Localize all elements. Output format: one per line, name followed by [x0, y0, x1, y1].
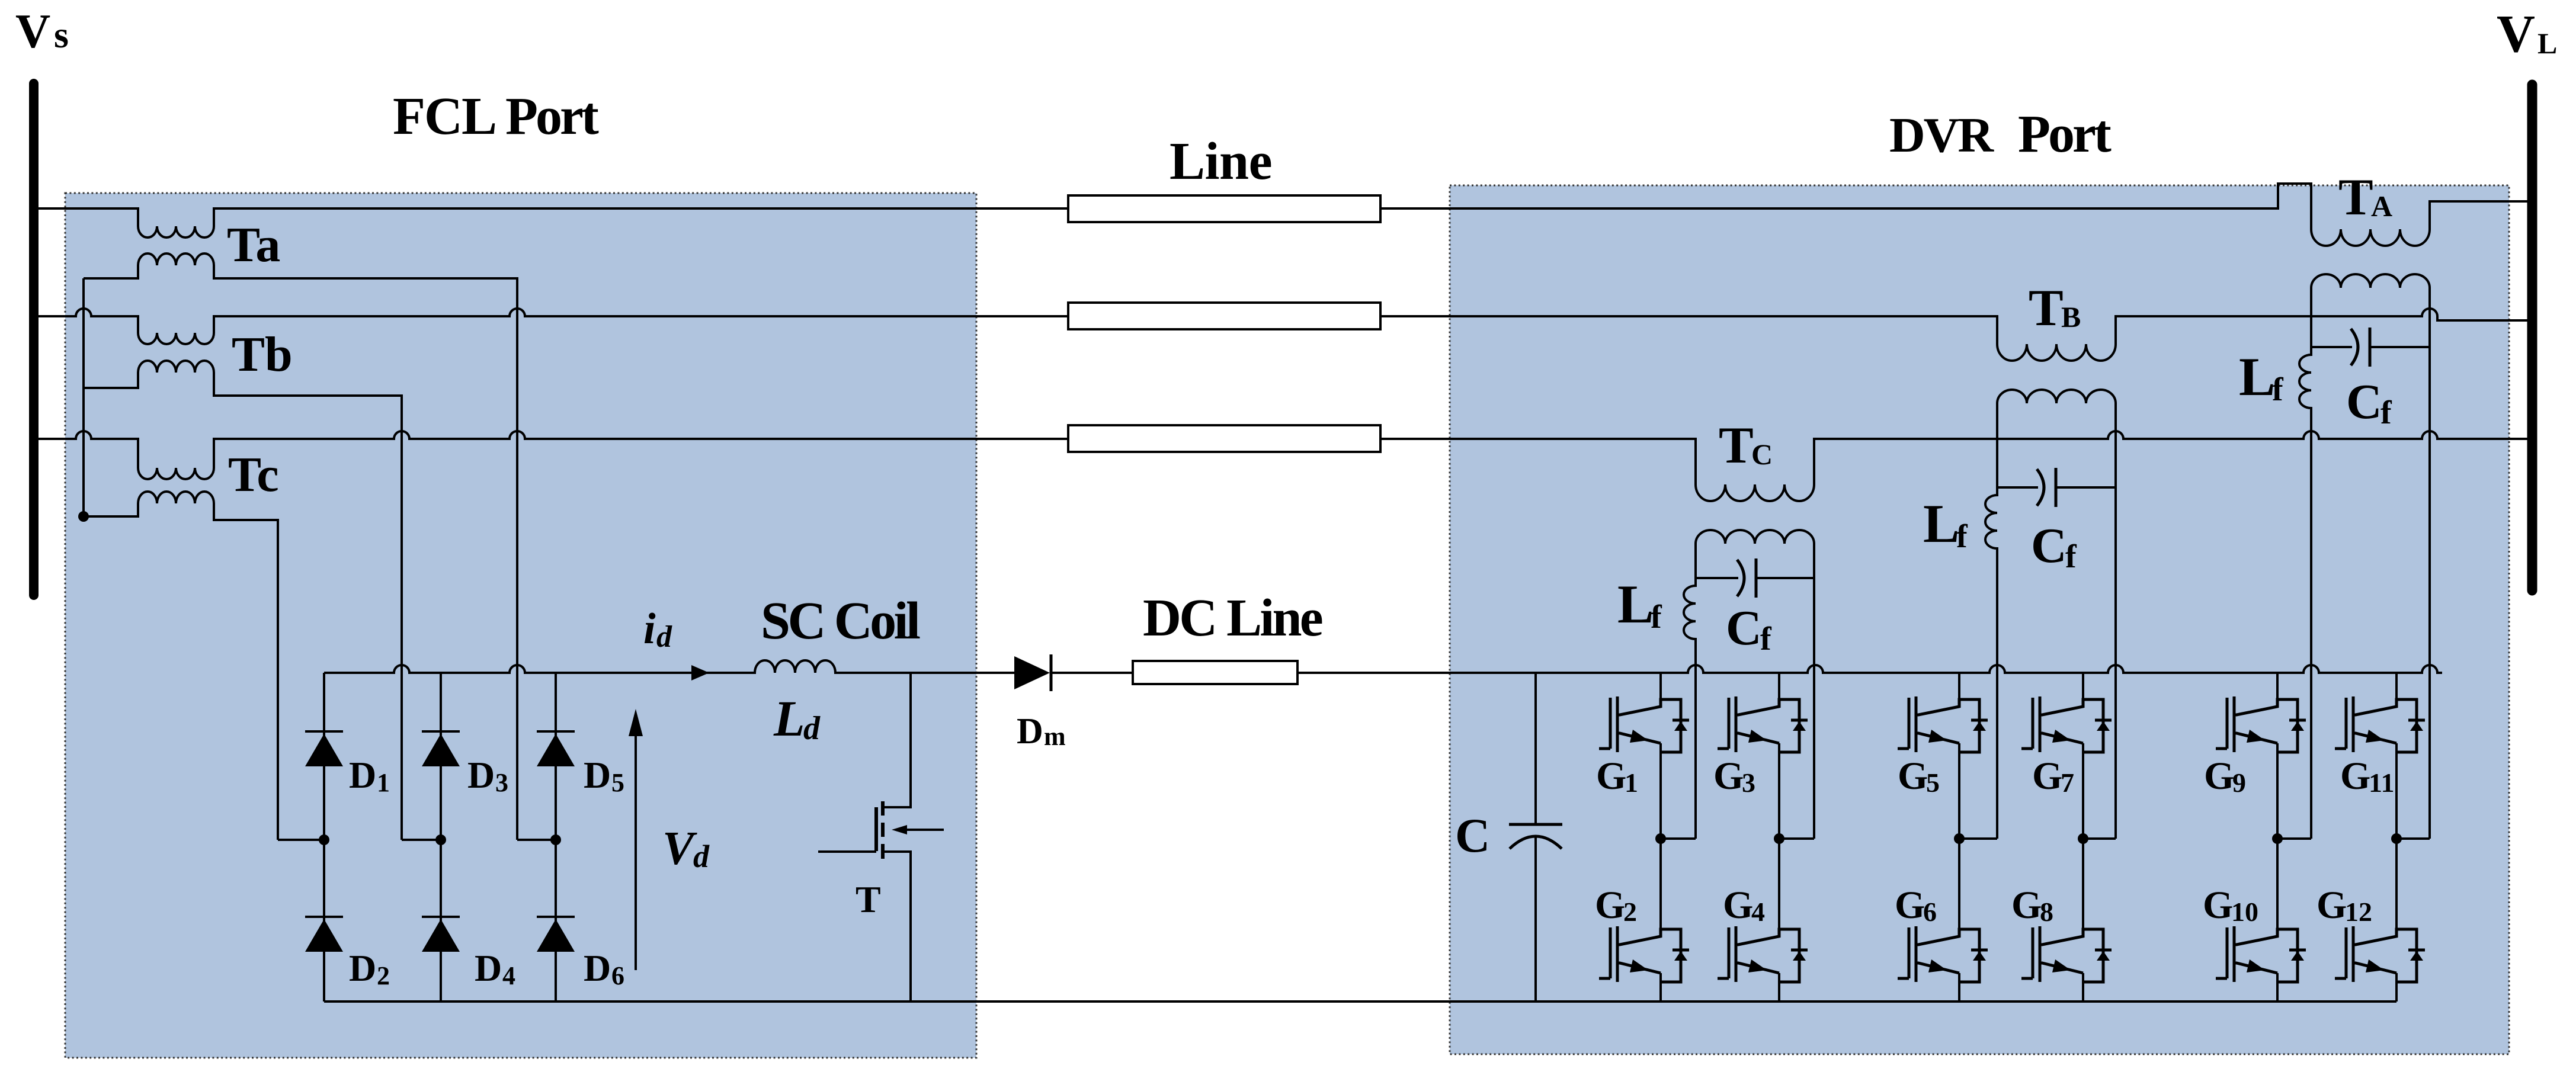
svg-text:m: m — [1044, 722, 1066, 751]
svg-text:L: L — [2239, 346, 2275, 407]
svg-text:f: f — [1760, 621, 1772, 657]
wire stub G3 mid — [1779, 837, 1814, 840]
capacitor Cf of TC — [1696, 577, 1738, 579]
wire TA filter left leg with inductor Lf — [2299, 288, 2311, 839]
svg-text:f: f — [1651, 599, 1662, 635]
svg-text:T: T — [2338, 169, 2373, 226]
wire TC filter right leg — [1813, 544, 1815, 839]
svg-text:8: 8 — [2040, 897, 2053, 927]
svg-text:D: D — [349, 754, 376, 796]
svg-text:d: d — [656, 620, 672, 654]
capacitor Cf of TA — [2311, 346, 2352, 348]
wire TC filter left leg with inductor Lf — [1684, 544, 1696, 839]
svg-text:4: 4 — [1751, 897, 1765, 927]
svg-text:B: B — [2061, 300, 2081, 333]
svg-text:4: 4 — [502, 961, 515, 990]
svg-text:Port: Port — [505, 87, 599, 146]
diode D4 — [422, 916, 460, 918]
transformer TC secondary winding — [1696, 530, 1814, 544]
node leg2 mid — [435, 834, 446, 845]
diode D6 — [537, 916, 575, 918]
wire phase B with transformer Tb primary and TB primary — [38, 309, 1068, 344]
svg-text:s: s — [54, 14, 69, 56]
wire phase A with transformer Ta primary and TA primary — [38, 208, 1068, 237]
svg-text:3: 3 — [1742, 768, 1755, 798]
svg-text:D: D — [584, 754, 611, 796]
wire stub G7 mid — [2083, 837, 2116, 840]
transistor G2 — [1599, 926, 1689, 982]
wire TB filter right leg — [2114, 403, 2117, 839]
wire stub to leg2 midpoint — [402, 839, 441, 841]
node star point dot — [78, 511, 89, 522]
svg-text:G: G — [2340, 755, 2370, 798]
line impedance box phase B — [1068, 303, 1380, 329]
svg-text:12: 12 — [2345, 897, 2372, 927]
svg-text:C: C — [2346, 374, 2382, 429]
line impedance box phase A — [1068, 195, 1380, 222]
transistor T mosfet — [883, 673, 911, 807]
wire common star point vertical — [82, 278, 85, 516]
svg-text:G: G — [1895, 884, 1925, 927]
svg-text:Line: Line — [1170, 132, 1272, 191]
wire stub to leg3 midpoint — [517, 839, 556, 841]
svg-text:A: A — [2371, 190, 2392, 223]
wire TA filter right leg — [2428, 288, 2431, 839]
svg-text:10: 10 — [2231, 897, 2258, 927]
transistor G12 — [2335, 926, 2425, 982]
svg-text:G: G — [2317, 884, 2347, 927]
svg-text:Port: Port — [2018, 105, 2112, 163]
svg-text:C: C — [1751, 438, 1773, 471]
svg-text:1: 1 — [1625, 768, 1638, 798]
svg-text:G: G — [1596, 755, 1626, 798]
svg-text:V: V — [2497, 5, 2535, 63]
svg-text:Tc: Tc — [228, 447, 279, 502]
transistor G10 — [2216, 926, 2306, 982]
svg-text:DVR: DVR — [1889, 108, 1994, 163]
node G11 mid — [2391, 833, 2402, 844]
svg-text:5: 5 — [611, 768, 624, 797]
svg-text:f: f — [1956, 518, 1968, 555]
svg-text:G: G — [2203, 884, 2233, 927]
svg-text:G: G — [1723, 884, 1753, 927]
svg-text:V: V — [15, 4, 50, 58]
svg-text:G: G — [2204, 755, 2234, 798]
arrow id current — [691, 665, 709, 680]
svg-text:L: L — [773, 690, 805, 747]
svg-text:2: 2 — [377, 961, 390, 990]
wire phase C with transformer Tc primary and TC primary — [38, 431, 1068, 479]
svg-text:5: 5 — [1926, 768, 1940, 798]
svg-text:D: D — [1017, 711, 1043, 752]
svg-text:Tb: Tb — [232, 327, 293, 382]
FCL Port shaded region — [65, 193, 976, 1058]
transformer TA secondary winding — [2311, 274, 2430, 288]
node G9 mid — [2272, 833, 2283, 844]
node leg1 mid — [319, 834, 329, 845]
svg-text:DC Line: DC Line — [1143, 589, 1322, 647]
svg-text:d: d — [803, 710, 821, 747]
svg-text:D: D — [584, 947, 611, 989]
transformer Tb secondary winding — [84, 361, 402, 840]
svg-text:T: T — [856, 878, 881, 920]
svg-text:9: 9 — [2232, 768, 2246, 798]
svg-text:C: C — [1455, 808, 1490, 862]
diode Dm — [1014, 656, 1050, 689]
wire stub G5 mid — [1959, 837, 1997, 840]
bus VL — [2527, 85, 2537, 590]
node leg3 mid — [550, 834, 561, 845]
wire TB filter left leg with inductor Lf — [1985, 403, 1997, 839]
transistor G11 — [2335, 696, 2425, 752]
transistor G7 — [2021, 696, 2112, 752]
transformer Ta secondary winding — [84, 253, 517, 840]
svg-text:Ta: Ta — [227, 217, 280, 272]
svg-text:FCL: FCL — [393, 87, 496, 146]
wire stub G9 mid — [2277, 837, 2311, 840]
rectifier leg 1 — [323, 673, 325, 1001]
diode D2 — [305, 916, 343, 918]
node G7 mid — [2078, 833, 2088, 844]
svg-text:i: i — [643, 605, 656, 653]
svg-text:D: D — [467, 754, 495, 796]
svg-text:d: d — [693, 839, 710, 874]
svg-text:7: 7 — [2061, 768, 2074, 798]
transistor G6 — [1898, 926, 1988, 982]
transistor G4 — [1718, 926, 1808, 982]
svg-text:C: C — [1726, 601, 1762, 656]
transistor G3 — [1718, 696, 1808, 752]
svg-text:G: G — [2011, 884, 2042, 927]
diode D5 — [537, 730, 575, 733]
capacitor C — [1534, 673, 1537, 824]
diode D3 — [422, 730, 460, 733]
line impedance box phase C — [1068, 425, 1380, 452]
node G1 mid — [1655, 833, 1666, 844]
wire stub G1 mid — [1661, 837, 1696, 840]
svg-text:T: T — [1719, 417, 1754, 474]
svg-text:f: f — [2065, 538, 2077, 575]
svg-text:L: L — [1617, 574, 1654, 634]
transistor G1 — [1599, 696, 1689, 752]
svg-text:2: 2 — [1623, 897, 1637, 927]
transistor G8 — [2021, 926, 2112, 982]
node G3 mid — [1774, 833, 1784, 844]
wire stub to leg1 midpoint — [278, 839, 324, 841]
wire stub G11 mid — [2396, 837, 2430, 840]
svg-text:11: 11 — [2369, 768, 2394, 798]
svg-text:G: G — [1898, 755, 1928, 798]
svg-text:1: 1 — [377, 768, 390, 797]
svg-text:D: D — [475, 947, 502, 989]
svg-text:6: 6 — [1923, 897, 1937, 927]
transformer Tc secondary winding — [84, 492, 278, 840]
wire dc negative rail — [324, 1000, 2396, 1003]
svg-text:G: G — [1713, 755, 1744, 798]
node G5 mid — [1954, 833, 1965, 844]
svg-text:V: V — [662, 823, 697, 875]
transformer TB secondary winding — [1997, 390, 2116, 403]
svg-text:C: C — [2031, 518, 2067, 573]
bus Vs — [29, 84, 39, 595]
arrow Vd — [635, 733, 637, 970]
rectifier leg 2 — [440, 673, 442, 1001]
DVR Port shaded region — [1450, 185, 2509, 1054]
svg-text:6: 6 — [611, 961, 624, 990]
svg-text:f: f — [2380, 394, 2392, 431]
capacitor Cf of TB — [1997, 486, 2038, 489]
svg-text:G: G — [1595, 884, 1625, 927]
dc line impedance box — [1133, 661, 1297, 684]
svg-text:T: T — [2029, 280, 2064, 337]
rectifier leg 3 — [555, 673, 557, 1001]
svg-text:L: L — [1923, 493, 1959, 554]
diode D1 — [305, 730, 343, 733]
svg-text:3: 3 — [495, 768, 508, 797]
svg-text:f: f — [2272, 371, 2284, 408]
transistor G5 — [1898, 696, 1988, 752]
svg-text:D: D — [349, 947, 376, 989]
wire dc positive rail with id arrow, SC coil, Dm and DC Line — [324, 660, 1014, 673]
transistor G9 — [2216, 696, 2306, 752]
svg-text:SC Coil: SC Coil — [761, 592, 920, 650]
svg-text:G: G — [2032, 755, 2062, 798]
svg-text:L: L — [2537, 27, 2557, 60]
